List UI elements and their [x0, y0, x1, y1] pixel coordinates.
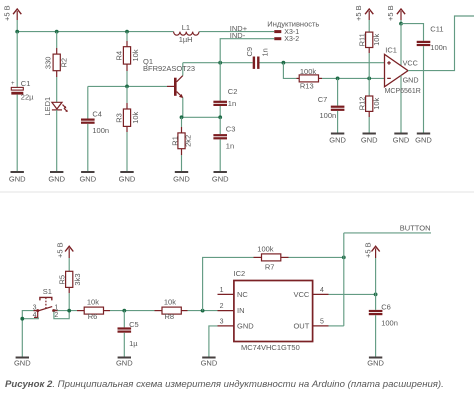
separator line — [0, 191, 474, 193]
wire minus input node — [322, 77, 385, 79]
svg-text:IND-: IND- — [230, 31, 246, 40]
svg-text:R7: R7 — [265, 263, 275, 272]
svg-text:GND: GND — [393, 135, 410, 144]
svg-text:GND: GND — [119, 174, 136, 183]
svg-text:NC: NC — [237, 290, 248, 299]
ground GND (C3) — [212, 172, 229, 183]
junction R7 feedback — [201, 309, 205, 313]
svg-text:GND: GND — [14, 359, 31, 368]
svg-text:GND: GND — [403, 75, 419, 84]
wire OUT to pin5 — [329, 325, 344, 327]
wire R8 to IC2 pin2 — [188, 310, 218, 312]
svg-text:R1: R1 — [170, 136, 179, 146]
svg-text:L1: L1 — [182, 23, 190, 32]
svg-text:1n: 1n — [228, 99, 236, 108]
svg-text:+5 В: +5 В — [386, 5, 395, 21]
svg-text:330: 330 — [43, 57, 52, 70]
svg-text:X3-2: X3-2 — [284, 36, 299, 43]
svg-text:Индуктивность: Индуктивность — [267, 20, 319, 29]
wire R13 branch — [283, 63, 296, 79]
svg-text:C4: C4 — [92, 109, 102, 118]
svg-text:10k: 10k — [372, 97, 381, 109]
wire emitter node — [182, 116, 221, 118]
wire VCC pin IC1 — [400, 24, 402, 68]
svg-text:10k: 10k — [372, 34, 381, 46]
resistor R12 10k — [358, 78, 381, 133]
junction minus/R11/R12 — [367, 77, 371, 81]
wire switch left to GND — [22, 311, 33, 358]
svg-text:+5 В: +5 В — [56, 242, 65, 258]
ground GND (C5) — [116, 358, 133, 368]
svg-text:1n: 1n — [260, 48, 269, 56]
svg-text:1µ: 1µ — [129, 339, 138, 348]
wire VCC net — [329, 293, 376, 295]
svg-text:GND: GND — [237, 321, 254, 330]
IC2 MC74VHC1GT50 — [218, 269, 329, 352]
svg-text:IC1: IC1 — [385, 45, 397, 54]
svg-text:R3: R3 — [114, 113, 123, 123]
junction R5/switch — [67, 309, 71, 313]
svg-text:2k2: 2k2 — [184, 135, 193, 147]
svg-text:10k: 10k — [164, 297, 176, 306]
wire R7 branch left — [203, 257, 254, 310]
junction emitter/R1 — [180, 115, 184, 119]
svg-text:LED1: LED1 — [43, 97, 52, 116]
junction rail/R4 — [125, 30, 129, 34]
capacitor C3 1n — [213, 117, 235, 172]
ground GND (C11) — [415, 134, 432, 145]
svg-text:GND: GND — [201, 359, 218, 368]
svg-text:C3: C3 — [226, 125, 236, 134]
svg-text:+5 В: +5 В — [363, 242, 372, 258]
wire base node — [88, 85, 167, 87]
svg-text:GND: GND — [48, 174, 65, 183]
junction switch left — [20, 317, 24, 321]
wire IND+ — [199, 31, 274, 33]
svg-text:C2: C2 — [228, 87, 238, 96]
svg-text:100n: 100n — [92, 126, 109, 135]
svg-text:R5: R5 — [57, 275, 66, 285]
svg-text:MCP6561R: MCP6561R — [385, 88, 421, 95]
svg-text:10k: 10k — [87, 297, 99, 306]
capacitor C4 100n — [81, 86, 109, 172]
svg-text:GND: GND — [367, 359, 384, 368]
capacitor C7 100n — [318, 78, 345, 133]
junction emitter/C2/C3 — [218, 115, 222, 119]
svg-text:100k: 100k — [300, 67, 317, 76]
svg-text:100n: 100n — [320, 111, 337, 120]
ground GND (IC2) — [201, 358, 218, 368]
wire IND- — [220, 39, 274, 63]
resistor R5 3k3 — [57, 271, 82, 310]
junction C5 — [122, 309, 126, 313]
svg-text:1: 1 — [220, 287, 224, 294]
svg-text:10k: 10k — [131, 111, 140, 123]
svg-text:2: 2 — [220, 303, 224, 310]
svg-text:2: 2 — [54, 312, 58, 319]
wire main node — [58, 310, 78, 312]
supply +5V arrow (above C6) — [363, 242, 379, 258]
svg-text:IC2: IC2 — [234, 269, 246, 278]
LED LED1 — [43, 77, 68, 172]
wire R7 right to OUT net — [289, 256, 344, 258]
ground GND (C6) — [367, 358, 384, 368]
ground GND (R12) — [361, 134, 378, 145]
resistor R2 330 — [43, 32, 68, 77]
svg-text:BFR92ASOT23: BFR92ASOT23 — [143, 64, 195, 73]
resistor R7 100k — [254, 244, 289, 271]
resistor R11 10k — [358, 32, 381, 78]
svg-text:GND: GND — [9, 174, 26, 183]
svg-text:S1: S1 — [43, 287, 52, 296]
supply +5V arrow (left, net +5 В) — [2, 5, 21, 31]
junction +5V/VCC/C11 — [399, 22, 403, 26]
svg-text:100n: 100n — [430, 43, 447, 52]
svg-text:5: 5 — [320, 319, 324, 326]
svg-text:OUT: OUT — [293, 321, 309, 330]
supply +5V arrow (above R5) — [56, 242, 74, 271]
junction rail/C1 — [15, 30, 19, 34]
supply +5V arrow (above IC1) — [386, 5, 405, 23]
svg-text:3k3: 3k3 — [73, 274, 82, 286]
transistor Q1 BFR92ASOT23 — [143, 57, 195, 117]
supply +5V arrow (above R11) — [354, 5, 373, 32]
svg-text:BUTTON: BUTTON — [400, 223, 431, 232]
svg-text:GND: GND — [79, 174, 96, 183]
svg-text:C9: C9 — [245, 47, 254, 57]
svg-text:C6: C6 — [381, 302, 391, 311]
svg-text:Рисунок 2. Принципиальная схем: Рисунок 2. Принципиальная схема измерите… — [5, 379, 444, 390]
op-amp IC1 MCP6561R — [385, 45, 421, 133]
svg-text:4: 4 — [33, 312, 37, 319]
junction R7/OUT — [342, 256, 346, 260]
junction tank/C2/IND- — [218, 61, 222, 65]
connector X3-2 pad — [274, 37, 281, 40]
capacitor C2 1n — [213, 63, 237, 118]
junction base/R4/R3 — [125, 85, 129, 89]
svg-text:R8: R8 — [165, 312, 175, 321]
capacitor C11 100n — [417, 25, 447, 134]
svg-text:10k: 10k — [131, 49, 140, 61]
resistor R8 10k — [155, 297, 188, 321]
svg-text:R4: R4 — [114, 51, 123, 61]
svg-text:3: 3 — [220, 319, 224, 326]
svg-text:+5 В: +5 В — [354, 5, 363, 21]
svg-text:100n: 100n — [381, 318, 398, 327]
ground GND (R1) — [173, 172, 190, 183]
svg-text:GND: GND — [173, 174, 190, 183]
wire +5V rail — [17, 31, 173, 33]
svg-text:GND: GND — [116, 359, 133, 368]
junction minus/C7 — [336, 77, 340, 81]
svg-text:C5: C5 — [129, 320, 139, 329]
wire tank node (collector) — [183, 62, 253, 64]
svg-text:+: + — [11, 81, 15, 87]
svg-text:22µ: 22µ — [21, 93, 34, 102]
switch S1 — [33, 287, 59, 319]
resistor R6 10k — [77, 297, 110, 321]
capacitor C1 22µ — [11, 32, 34, 172]
svg-text:R2: R2 — [60, 58, 69, 68]
ground GND (C1) — [9, 172, 26, 183]
svg-text:GND: GND — [329, 135, 346, 144]
svg-text:VCC: VCC — [403, 59, 418, 68]
svg-text:4: 4 — [320, 287, 324, 294]
svg-text:100k: 100k — [257, 244, 274, 253]
capacitor C5 1µ — [118, 311, 139, 358]
junction rail/R2 — [55, 30, 59, 34]
svg-text:IN: IN — [237, 306, 245, 315]
wire +5V to C6 — [375, 258, 377, 310]
svg-text:R13: R13 — [300, 82, 314, 91]
ground GND (LED1) — [48, 172, 65, 183]
wire switch pin4 loop — [22, 317, 38, 318]
svg-text:GND: GND — [415, 135, 432, 144]
capacitor C6 100n — [369, 302, 398, 357]
svg-text:1µH: 1µH — [179, 35, 193, 44]
ground GND (IC1) — [393, 134, 410, 145]
junction VCC/+5V/C6 — [374, 293, 378, 297]
svg-text:VCC: VCC — [293, 290, 309, 299]
wire BUTTON net — [344, 232, 431, 234]
wire IC2 pin3 to GND — [209, 326, 218, 358]
svg-text:X3-1: X3-1 — [284, 29, 299, 36]
wire to C11 — [401, 24, 424, 41]
ground GND (C7) — [329, 134, 346, 145]
svg-text:R12: R12 — [358, 97, 367, 111]
resistor R13 100k — [297, 67, 323, 90]
junction +in/R13 — [282, 61, 286, 65]
svg-text:GND: GND — [361, 135, 378, 144]
ground GND (C4) — [79, 172, 96, 183]
capacitor C9 1n — [245, 47, 385, 69]
resistor R4 10k — [114, 32, 140, 87]
wire OUT vertical — [343, 233, 345, 326]
inductor L1 1µH — [174, 23, 199, 44]
svg-text:+5 В: +5 В — [2, 5, 11, 21]
ground GND (S1) — [14, 358, 31, 368]
svg-text:GND: GND — [212, 174, 229, 183]
svg-text:1n: 1n — [226, 141, 234, 150]
svg-text:R11: R11 — [358, 33, 367, 46]
wire switch pin2 loop — [54, 311, 69, 319]
svg-text:R6: R6 — [88, 312, 98, 321]
svg-text:C11: C11 — [430, 25, 443, 34]
svg-text:C7: C7 — [318, 95, 328, 104]
wire output net — [408, 16, 474, 71]
resistor R1 2k2 — [170, 117, 192, 172]
wire R6 to R8 — [110, 310, 155, 312]
svg-text:MC74VHC1GT50: MC74VHC1GT50 — [241, 343, 300, 352]
svg-text:C1: C1 — [21, 79, 31, 88]
connector X3-1 pad — [274, 30, 281, 33]
resistor R3 10k — [114, 86, 140, 172]
ground GND (R3) — [119, 172, 136, 183]
